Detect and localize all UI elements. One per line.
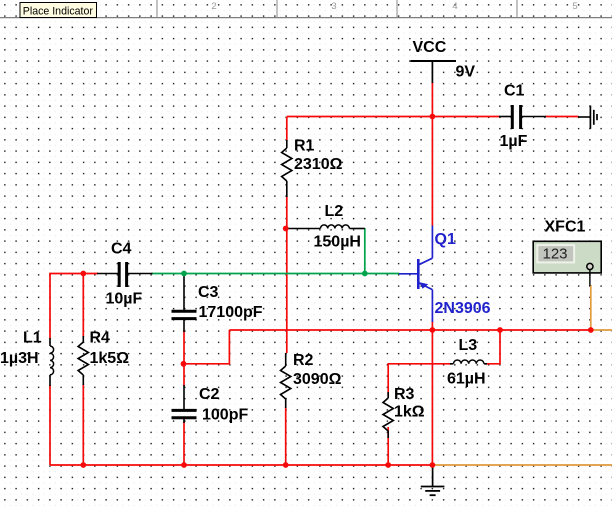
transistor Q1 2N3906 — [399, 226, 491, 323]
capacitor C4 10uF — [97, 241, 153, 308]
instrument XFC1 frequency counter — [533, 219, 601, 287]
capacitor C2 100pF — [172, 385, 249, 423]
junction R2 bottom — [283, 462, 289, 468]
wire W1 top horizontal net — [287, 117, 579, 354]
inductor L1 1u3H — [0, 329, 54, 386]
svg-text:C4: C4 — [111, 241, 132, 258]
junction ground bottom — [430, 462, 436, 468]
svg-text:4: 4 — [452, 1, 457, 12]
ground right (rotated) — [578, 106, 597, 129]
svg-text:L3: L3 — [459, 337, 478, 354]
resistor R3 1kohm — [383, 386, 425, 438]
junction green C3 tap — [181, 271, 187, 277]
svg-text:10µF: 10µF — [106, 291, 143, 308]
svg-text:L1: L1 — [23, 329, 42, 346]
junction XFC1/W3 — [588, 327, 594, 333]
wire R3 bottom lead — [387, 427, 389, 465]
ruler — [0, 0, 612, 18]
svg-text:C3: C3 — [198, 284, 219, 301]
junction R4 top — [80, 271, 86, 277]
wire W3 mid horizontal rail y=330 — [229, 329, 590, 331]
svg-text:100pF: 100pF — [202, 406, 248, 423]
inductor L2 150uH — [286, 203, 365, 251]
junction R3 bottom — [385, 462, 391, 468]
junction emitter/W3 — [430, 327, 436, 333]
svg-text:Q1: Q1 — [435, 231, 456, 248]
svg-text:17100pF: 17100pF — [199, 304, 263, 321]
resistor R2 3090ohm — [281, 352, 342, 408]
svg-text:Place Indicator: Place Indicator — [23, 5, 94, 17]
wire W4 feedback from C3 bottom to mid rail — [184, 330, 230, 364]
resistor R4 1k5ohm — [78, 329, 129, 385]
svg-text:61µH: 61µH — [447, 371, 486, 388]
inductor L3 61uH — [447, 337, 487, 388]
junction R4 bottom — [80, 462, 86, 468]
junction L2 left — [283, 226, 289, 232]
svg-text:VCC: VCC — [413, 39, 447, 56]
junction C3 bottom — [181, 361, 187, 367]
wire W6 bottom ground rail — [50, 464, 432, 466]
svg-text:2310Ω: 2310Ω — [294, 156, 343, 173]
capacitor C1 1uF — [499, 83, 546, 151]
junction C2 bottom — [181, 462, 187, 468]
wire VCC branch / Q1 collector-emitter spine — [431, 82, 433, 465]
svg-text:R1: R1 — [294, 138, 315, 155]
svg-text:5: 5 — [572, 1, 577, 12]
svg-text:R3: R3 — [394, 386, 415, 403]
svg-text:C1: C1 — [504, 83, 525, 100]
wire C3-C2 vertical branch — [183, 330, 185, 465]
svg-text:C2: C2 — [199, 386, 220, 403]
svg-text:1k5Ω: 1k5Ω — [90, 350, 130, 367]
svg-text:L2: L2 — [325, 203, 344, 220]
tooltip Place Indicator — [20, 3, 97, 18]
wire R2 bottom lead — [285, 407, 287, 465]
wire L3 row — [388, 330, 500, 396]
svg-text:3: 3 — [331, 1, 336, 12]
wire orange from XFC1 to right edge — [591, 285, 612, 330]
svg-text:9V: 9V — [456, 64, 476, 81]
junction VCC/W1 — [430, 114, 436, 120]
svg-text:2N3906: 2N3906 — [435, 300, 491, 317]
svg-text:150µH: 150µH — [314, 233, 361, 250]
junction green L2 tap — [362, 271, 368, 277]
svg-text:2: 2 — [211, 1, 216, 12]
wire orange bottom right — [432, 464, 612, 466]
wire green base net — [152, 228, 400, 274]
junction L3/W3 — [497, 327, 503, 333]
svg-text:3090Ω: 3090Ω — [293, 371, 342, 388]
power VCC — [411, 39, 476, 83]
svg-text:1µ3H: 1µ3H — [0, 350, 39, 367]
svg-text:R2: R2 — [293, 352, 314, 369]
capacitor C3 17100pF — [172, 275, 263, 332]
svg-text:XFC1: XFC1 — [545, 219, 586, 236]
svg-text:123: 123 — [543, 246, 568, 263]
ground bottom — [421, 465, 445, 495]
wire left net to C4/L1/R4 — [50, 274, 98, 339]
wire R4 bottom lead — [82, 384, 84, 465]
wire L1 bottom lead — [49, 385, 51, 465]
svg-text:1kΩ: 1kΩ — [394, 404, 425, 421]
svg-text:R4: R4 — [90, 329, 111, 346]
svg-text:1µF: 1µF — [500, 133, 528, 150]
resistor R1 2310ohm — [282, 138, 343, 198]
